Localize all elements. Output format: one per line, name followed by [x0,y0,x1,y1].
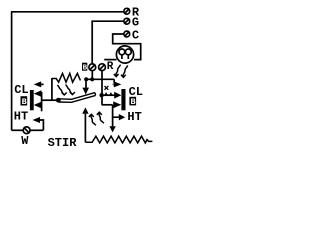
heat arrows from lamp [114,65,121,77]
wire to heater arrow [112,117,114,126]
wire right low branch [102,104,113,106]
svg-text:R: R [107,61,114,73]
wire W to hook [30,129,43,131]
junction dot right mid [99,93,103,97]
svg-text:B: B [22,97,27,107]
label B boxed (top) [82,63,88,73]
mark x right [105,86,109,90]
wire top to R [11,11,124,13]
connector circle R2 [99,64,106,71]
arrow up at tube [82,107,88,142]
bimetal coil zigzag [52,73,80,82]
contact arrow CL left [34,81,44,87]
terminal G [124,18,130,24]
wire bus corner down right [113,79,115,83]
label B boxed right [129,97,136,107]
contact arrow low right [113,101,121,108]
wire G [92,21,124,63]
arrow HT right [119,114,125,120]
terminal R [124,8,130,14]
label B boxed left [21,96,28,107]
contact arrow down at tube [82,79,89,94]
wire bus [86,78,114,80]
svg-text:C: C [132,28,139,42]
svg-text:CL: CL [14,83,28,97]
connector circle B [89,64,96,71]
wire bottom to W [12,129,24,131]
contact arrow mid right [104,92,121,99]
wire W hook [40,120,44,130]
wire HT hook right [113,105,119,117]
contact arrow CL right [113,81,122,87]
terminal W [23,127,30,134]
wire lamp left lead [104,59,116,61]
heat arrows from coil to tube [57,85,67,95]
junction dot tube [56,98,61,103]
svg-text:HT: HT [14,110,28,124]
contact bar left [30,90,34,110]
contact arrow mid left [34,90,42,97]
svg-text:W: W [21,134,29,148]
arrow down to heater [109,126,115,132]
mercury tube [59,93,96,103]
wire right mid branch [102,94,115,96]
terminal C [124,31,130,37]
wire left rail [11,12,13,131]
wire left post [41,92,43,111]
junction dot B [90,77,94,81]
wire circle R2 drop [101,71,103,80]
wire coil drop [51,78,53,100]
junction dot bus left [84,77,88,81]
wire C loop to lamp [113,34,141,60]
svg-text:STIR: STIR [48,136,78,150]
wire circle B drop [91,71,93,80]
contact arrow low left [34,102,42,109]
arrow W at bar [32,117,40,123]
svg-text:HT: HT [127,110,141,124]
contact bar right [121,89,125,110]
lamp PL1 [116,46,133,63]
svg-text:B: B [131,97,136,107]
heat arrows from heater [89,114,96,125]
svg-text:G: G [132,15,139,29]
svg-text:B: B [83,65,88,73]
heater resistor [85,136,152,143]
wire post to dot [42,99,57,101]
wire right feed [101,79,103,105]
